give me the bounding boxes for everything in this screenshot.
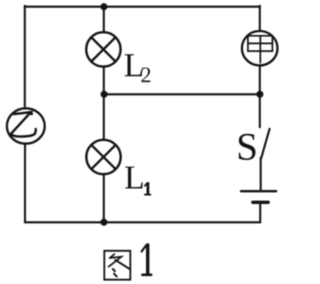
- battery positive plate (long): [241, 190, 276, 192]
- caption number 1: [142, 245, 152, 275]
- meter 甲 (circle): [242, 31, 278, 65]
- battery lead down to bottom wire: [259, 202, 261, 222]
- wire left lower (meter 乙 down to bottom-left corner): [24, 143, 26, 222]
- node A (top junction dot): [100, 3, 107, 10]
- wire middle (junction under L2 to right-side node): [104, 93, 260, 95]
- caption 图 (drawn strokes): [104, 251, 130, 280]
- meter 乙 (circle): [7, 108, 45, 143]
- switch S lower lead to battery: [260, 158, 262, 191]
- lamp L1: [86, 140, 120, 174]
- wire top (from top-left corner to top-right corner): [25, 6, 260, 8]
- wire right upper (top-right corner down to meter 甲): [259, 6, 261, 31]
- node C (right junction dot): [256, 91, 263, 98]
- wire lamp branch top (top node down to lamp L2): [103, 7, 105, 33]
- label L1: [125, 167, 150, 195]
- lamp L2: [86, 32, 120, 66]
- battery negative plate (short): [253, 201, 268, 204]
- label S: [239, 134, 256, 160]
- wire right middle (meter 甲 down through node to switch S): [259, 66, 261, 128]
- wire lamp L1 bottom to bottom junction: [103, 174, 105, 222]
- node B (middle junction dot under L2): [101, 91, 108, 98]
- wire between lamp L2 and middle junction: [103, 67, 105, 95]
- meter 乙 character (drawn strokes): [11, 112, 36, 136]
- wire left upper (top-left corner down to meter 乙): [24, 6, 26, 108]
- switch S blade: [261, 129, 269, 158]
- label L2: [125, 54, 151, 82]
- wire between middle junction and lamp L1: [103, 94, 105, 140]
- wire bottom (bottom-left corner to battery lead): [25, 221, 260, 223]
- meter 甲 character (drawn strokes): [248, 36, 273, 63]
- node D (bottom junction dot): [100, 219, 107, 226]
